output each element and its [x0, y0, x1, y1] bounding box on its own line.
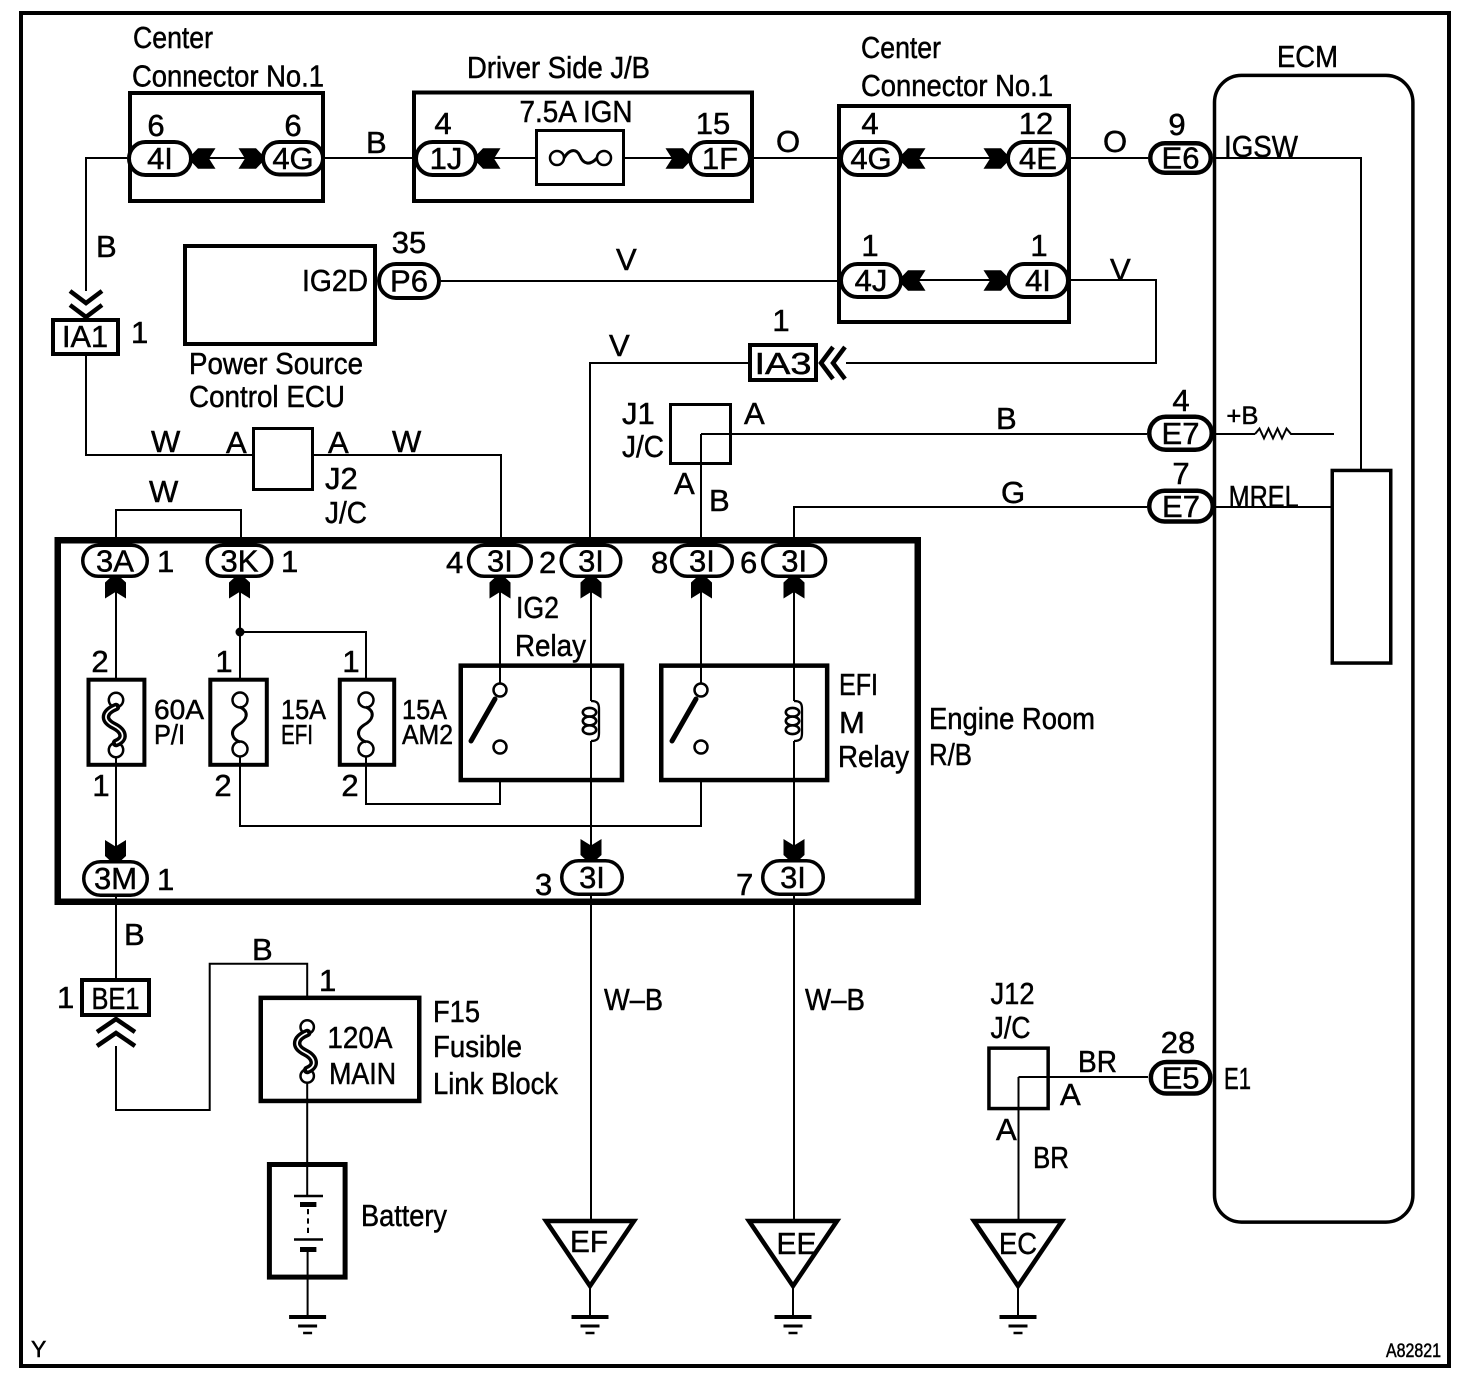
svg-text:W: W [151, 424, 181, 459]
svg-text:120A: 120A [327, 1020, 392, 1055]
fusible link block F15 [261, 998, 420, 1101]
svg-text:A82821: A82821 [1386, 1341, 1441, 1362]
svg-text:1F: 1F [702, 141, 738, 176]
arrow left (4G right block) [901, 148, 926, 169]
svg-text:E5: E5 [1162, 1061, 1200, 1096]
svg-text:Control ECU: Control ECU [189, 379, 345, 414]
wire fuse EFI pin2 to EFI M relay contact [240, 753, 701, 826]
arrow up into 3I(6) [784, 577, 805, 599]
svg-text:3I: 3I [689, 543, 715, 578]
connector IA1 pin 1 [53, 320, 118, 354]
svg-text:Fusible: Fusible [433, 1029, 522, 1064]
arrow up into 3I(2) [581, 577, 602, 599]
svg-text:A: A [226, 425, 247, 460]
svg-text:P/I: P/I [154, 719, 185, 750]
wire 3I(8) to EFI M contact [700, 578, 702, 684]
wire junction to fuse AM2 [240, 632, 366, 692]
wire W-B from 3I(7) to EE [793, 896, 795, 1221]
wire V from P6 to 4J [441, 280, 839, 282]
wire fuse P/I to 3M [115, 757, 117, 862]
svg-text:V: V [1110, 252, 1131, 287]
svg-text:J1: J1 [622, 396, 655, 431]
wire fuse AM2 pin2 to IG2 relay contact [366, 753, 500, 804]
svg-text:G: G [1001, 475, 1025, 510]
wire B from J1 down to 3I(8) [700, 434, 702, 544]
svg-text:W–B: W–B [604, 982, 663, 1017]
wire between 4I and 4G [193, 157, 261, 159]
relay block Engine Room R/B [58, 540, 918, 902]
svg-text:4I: 4I [1025, 263, 1051, 298]
svg-text:1: 1 [92, 768, 109, 803]
svg-text:J12: J12 [991, 976, 1035, 1011]
svg-text:6: 6 [284, 108, 301, 143]
arrow down into 3I(3) [581, 839, 602, 861]
svg-text:E7: E7 [1162, 416, 1200, 451]
svg-text:1: 1 [215, 644, 232, 679]
svg-text:B: B [709, 483, 730, 518]
svg-text:+B: +B [1226, 402, 1258, 430]
wire 3I(6) to EFI M coil [793, 578, 795, 701]
svg-text:4: 4 [861, 106, 878, 141]
svg-text:EFI: EFI [839, 667, 878, 702]
wire BR from J12 to EC [1018, 1110, 1020, 1221]
svg-text:B: B [96, 229, 117, 264]
svg-text:EFI: EFI [281, 719, 313, 750]
svg-text:4: 4 [434, 106, 451, 141]
svg-text:2: 2 [91, 644, 108, 679]
resistor inside ECM (+B) [1213, 433, 1255, 435]
battery [269, 1165, 345, 1278]
svg-text:Connector No.1: Connector No.1 [861, 68, 1053, 103]
svg-text:EE: EE [777, 1226, 817, 1261]
svg-text:1: 1 [281, 544, 298, 579]
wire 4J to 4I [903, 279, 1006, 281]
IG2 relay coil [591, 701, 599, 741]
svg-text:3I: 3I [487, 543, 513, 578]
svg-text:Y: Y [31, 1336, 46, 1362]
wire W bridging 3A and 3K [116, 510, 241, 544]
svg-text:Power Source: Power Source [189, 346, 363, 381]
svg-text:3I: 3I [579, 860, 605, 895]
svg-text:4G: 4G [850, 141, 891, 176]
wire 4I to left corner [86, 158, 127, 291]
wire B from 3M to BE1 [115, 897, 117, 978]
svg-text:AM2: AM2 [402, 719, 453, 750]
wire 1J to 1F through fuse [478, 157, 688, 159]
svg-text:W–B: W–B [805, 982, 865, 1017]
wire 3I(4) to IG2 contact [499, 578, 501, 684]
svg-text:V: V [616, 242, 637, 277]
svg-text:8: 8 [651, 545, 668, 580]
svg-text:4G: 4G [272, 141, 313, 176]
svg-text:1: 1 [157, 544, 174, 579]
svg-text:J/C: J/C [622, 429, 664, 464]
ground EE [749, 1221, 837, 1286]
svg-text:1: 1 [319, 963, 336, 998]
svg-text:BR: BR [1033, 1140, 1069, 1175]
svg-text:Connector No.1: Connector No.1 [132, 59, 324, 94]
svg-text:Driver Side J/B: Driver Side J/B [467, 50, 650, 85]
chevron arrows at IA3 [821, 347, 833, 379]
svg-text:3I: 3I [780, 860, 806, 895]
wire BR from J12 to E5 [1019, 1076, 1149, 1078]
arrow up into 3K [229, 577, 250, 599]
svg-text:A: A [996, 1112, 1017, 1147]
svg-text:B: B [124, 917, 145, 952]
arrow left (4I) [191, 148, 216, 169]
svg-text:O: O [776, 124, 800, 159]
svg-text:IA1: IA1 [62, 319, 108, 354]
svg-text:1: 1 [57, 980, 74, 1015]
arrow right (4G) [239, 148, 264, 169]
arrow right (4E) [984, 148, 1009, 169]
svg-text:B: B [366, 125, 387, 160]
svg-text:IG2: IG2 [516, 590, 559, 625]
wire 4G to 4E [903, 157, 1006, 159]
svg-text:12: 12 [1019, 106, 1053, 141]
svg-text:W: W [392, 424, 422, 459]
svg-text:6: 6 [147, 108, 164, 143]
svg-text:EF: EF [570, 1224, 608, 1259]
relay EFI M [661, 666, 827, 780]
wire V from IA3 to coil branch [590, 363, 748, 544]
svg-text:1: 1 [157, 862, 174, 897]
wire IA1 down to J2 row [86, 356, 501, 544]
svg-text:1: 1 [861, 228, 878, 263]
svg-text:4J: 4J [855, 263, 888, 298]
arrow up into 3I(4) [490, 577, 511, 599]
svg-text:3K: 3K [221, 543, 259, 578]
arrow right (1F) [666, 148, 691, 169]
svg-text:7: 7 [1172, 456, 1189, 491]
arrow down into 3M [105, 840, 126, 862]
chevron arrows below BE1 [97, 1019, 135, 1032]
wire F15 to battery [306, 1083, 308, 1162]
wire B [325, 157, 412, 159]
svg-text:A: A [674, 466, 695, 501]
arrow left (1J) [476, 148, 501, 169]
svg-text:3: 3 [535, 867, 552, 902]
svg-text:9: 9 [1168, 107, 1185, 142]
connector 3M pin 1 [84, 862, 148, 896]
svg-text:2: 2 [539, 545, 556, 580]
svg-text:E1: E1 [1224, 1061, 1251, 1096]
IG2 relay contact [494, 684, 507, 697]
svg-text:J/C: J/C [325, 495, 367, 530]
svg-text:1: 1 [342, 644, 359, 679]
arrow right (4I row2) [984, 270, 1009, 291]
ground EF [546, 1221, 634, 1286]
svg-text:Center: Center [133, 20, 213, 55]
svg-text:BR: BR [1078, 1044, 1117, 1079]
fusible link 120A MAIN [301, 1020, 314, 1033]
svg-text:B: B [996, 401, 1017, 436]
EFI M relay coil [794, 701, 802, 741]
svg-text:B: B [252, 932, 273, 967]
wire BE1 to fusible link block [116, 964, 307, 1110]
wire O [754, 157, 837, 159]
svg-text:1: 1 [772, 303, 789, 338]
svg-text:35: 35 [392, 225, 426, 260]
internal block inside ECM [1332, 470, 1391, 663]
svg-text:1: 1 [131, 315, 148, 350]
wire A/B from J1 to ECM E7 +B [701, 433, 1147, 435]
arrow up into 3I(8) [691, 577, 712, 599]
svg-text:F15: F15 [433, 994, 480, 1029]
wire 3I(2) to IG2 coil [590, 578, 592, 701]
connector block Center Connector No.1 (left) [130, 93, 323, 201]
ground EC [974, 1221, 1062, 1286]
wire 3K to fuse EFI [239, 578, 241, 700]
svg-text:3I: 3I [781, 543, 807, 578]
connector 3K pin 1 [207, 545, 272, 576]
svg-text:Engine Room: Engine Room [929, 701, 1095, 736]
svg-text:M: M [839, 705, 865, 740]
svg-text:Relay: Relay [515, 628, 586, 663]
svg-text:Link Block: Link Block [433, 1066, 558, 1101]
svg-text:4: 4 [1172, 383, 1189, 418]
wire battery to ground [307, 1251, 309, 1317]
ground below battery [289, 1315, 326, 1319]
wire IG2 coil to 3I(3) [590, 741, 592, 861]
svg-text:J/C: J/C [991, 1010, 1031, 1045]
chevron arrows at IA1 [70, 291, 102, 303]
svg-text:1: 1 [1030, 228, 1047, 263]
svg-text:1J: 1J [430, 141, 463, 176]
svg-text:3I: 3I [578, 543, 604, 578]
svg-text:A: A [1060, 1077, 1081, 1112]
wire W-B from 3I(3) to EF [590, 896, 592, 1221]
svg-text:E7: E7 [1162, 489, 1200, 524]
svg-text:7: 7 [736, 867, 753, 902]
wire 3A to fuse P/I [115, 578, 117, 700]
wire EFI M coil to 3I(7) [793, 741, 795, 861]
svg-text:4E: 4E [1019, 141, 1057, 176]
svg-text:W: W [149, 474, 179, 509]
svg-text:7.5A IGN: 7.5A IGN [520, 94, 633, 129]
svg-text:ECM: ECM [1277, 39, 1338, 74]
ECU block Power Source Control ECU [185, 246, 375, 344]
svg-text:J2: J2 [325, 461, 358, 496]
svg-text:A: A [328, 425, 349, 460]
arrow left (4J) [901, 270, 926, 291]
junction connector J2 J/C [254, 429, 313, 490]
svg-text:O: O [1103, 124, 1127, 159]
svg-text:3A: 3A [96, 543, 134, 578]
connector block Center Connector No.1 (right) [839, 106, 1069, 322]
arrow down into 3I(7) [784, 839, 805, 861]
connector 3A pin 1 [83, 545, 148, 576]
svg-text:15: 15 [696, 106, 730, 141]
EFI M relay contact [695, 684, 708, 697]
svg-text:BE1: BE1 [92, 981, 140, 1016]
svg-text:R/B: R/B [929, 737, 972, 772]
svg-text:MAIN: MAIN [329, 1056, 396, 1091]
svg-text:Battery: Battery [361, 1198, 447, 1233]
svg-text:Relay: Relay [838, 739, 909, 774]
svg-text:4I: 4I [147, 141, 173, 176]
svg-text:IG2D: IG2D [302, 263, 368, 298]
svg-text:2: 2 [341, 768, 358, 803]
wire G from 3I to E7 MREL [794, 507, 1147, 542]
svg-text:IA3: IA3 [755, 346, 812, 381]
arrow up into 3A [105, 577, 126, 599]
svg-text:3M: 3M [94, 861, 137, 896]
junction dot on 3K wire [236, 628, 245, 637]
svg-text:6: 6 [740, 545, 757, 580]
wire V from 4I to IA3 [846, 280, 1156, 363]
wire IGSW inside ECM [1213, 158, 1361, 469]
svg-text:4: 4 [446, 545, 463, 580]
svg-text:2: 2 [214, 768, 231, 803]
svg-text:MREL: MREL [1229, 479, 1299, 514]
svg-text:V: V [609, 328, 630, 363]
junction block Driver Side J/B [414, 93, 752, 202]
wire MREL to internal block [1213, 506, 1332, 508]
svg-text:P6: P6 [390, 264, 428, 299]
wire O to E6 [1071, 157, 1148, 159]
svg-text:Center: Center [861, 30, 941, 65]
svg-text:E6: E6 [1162, 141, 1200, 176]
svg-text:28: 28 [1161, 1025, 1195, 1060]
svg-text:EC: EC [999, 1226, 1037, 1261]
svg-text:A: A [744, 396, 765, 431]
